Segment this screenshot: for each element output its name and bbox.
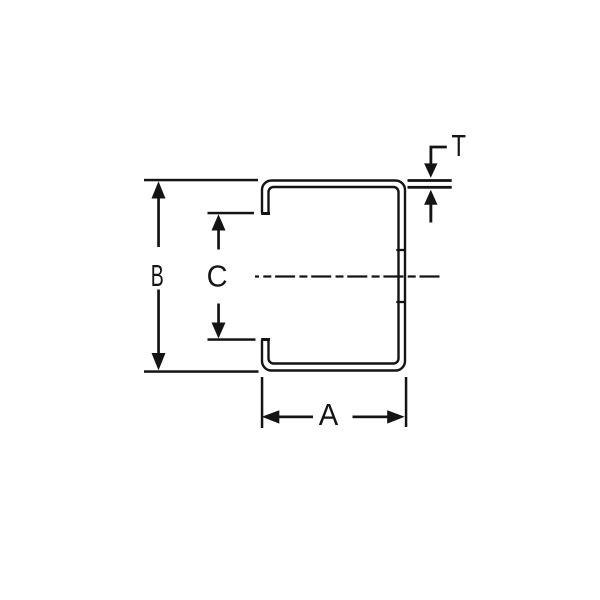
dimension B — [144, 179, 259, 373]
extension line C top — [208, 212, 255, 215]
arrow T down — [424, 163, 437, 177]
arrow A right — [387, 410, 405, 423]
extension line C bottom — [208, 338, 256, 341]
extension line A right — [405, 377, 408, 427]
svg-text:T: T — [452, 128, 467, 163]
channel outer profile — [262, 181, 405, 371]
top lip end cap — [261, 212, 270, 215]
arrow B down — [152, 353, 166, 370]
dimension C — [208, 212, 256, 341]
extension line A left — [261, 377, 264, 428]
svg-text:C: C — [207, 259, 228, 294]
arrow B up — [152, 181, 166, 198]
arrow C down — [212, 323, 226, 339]
T upper line — [408, 179, 452, 182]
centerline — [255, 275, 444, 277]
arrow C up — [212, 214, 226, 230]
extension line B bottom — [144, 370, 259, 373]
dimension A — [261, 377, 408, 428]
svg-text:B: B — [151, 258, 164, 293]
channel inner profile — [269, 187, 399, 364]
arrow T up — [424, 190, 437, 205]
T leader — [431, 147, 447, 165]
bottom lip end cap — [261, 338, 270, 341]
dimension T — [408, 147, 452, 223]
T lower line — [408, 186, 452, 189]
right wall tick lower — [396, 301, 405, 303]
arrow A left — [262, 410, 280, 423]
svg-text:A: A — [319, 397, 339, 432]
extension line B top — [144, 179, 258, 182]
right wall tick upper — [396, 249, 405, 251]
